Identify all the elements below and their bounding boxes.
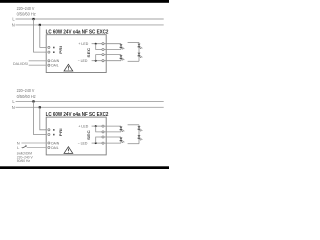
wire continuation bottom — [128, 60, 139, 62]
wire +LED out 1b — [104, 125, 121, 127]
junction +LED — [95, 43, 97, 45]
wire -LED out 2b — [104, 142, 121, 144]
svg-text:DALI/DSI: DALI/DSI — [13, 61, 28, 66]
svg-text:N: N — [12, 22, 15, 27]
letterbox bar bottom — [0, 166, 169, 169]
wire switchDIM N — [21, 142, 46, 144]
wire L — [16, 18, 164, 20]
wire N drop — [40, 25, 46, 48]
junction N — [39, 24, 41, 26]
letterbox bar top — [0, 0, 169, 3]
mains voltage label 2 — [17, 88, 36, 99]
terminal -LED 2b — [102, 142, 104, 144]
LED module LED5 — [120, 126, 125, 132]
wire L 2 — [16, 100, 164, 102]
warning symbol — [64, 64, 73, 71]
push-button S1 — [22, 145, 26, 148]
terminal L 2 (pri row 2) — [48, 133, 50, 135]
junction +LED 2 — [95, 125, 97, 127]
svg-text:− LED: − LED — [78, 142, 88, 146]
mains voltage label — [17, 6, 36, 17]
terminal +LED 1 — [102, 43, 104, 45]
terminal L (pri row 2) — [48, 51, 50, 53]
svg-text:LC 60W 24V o4a NF SC EXC2: LC 60W 24V o4a NF SC EXC2 — [46, 112, 109, 118]
svg-text:DA/L: DA/L — [51, 64, 58, 68]
svg-text:DA/N: DA/N — [51, 59, 59, 63]
wire N 2 — [16, 106, 164, 108]
svg-text:SEC: SEC — [86, 130, 91, 140]
wire +LED out 2 — [104, 49, 121, 51]
wire L drop 2 — [34, 101, 47, 134]
terminal +LED 2b — [102, 131, 104, 133]
wire -LED 2 — [92, 142, 103, 144]
svg-text:220–240 V: 220–240 V — [17, 6, 35, 11]
junction -LED — [95, 60, 97, 62]
wire LED string — [138, 42, 140, 61]
junction L — [32, 18, 34, 20]
wire continuation top 2 — [128, 124, 139, 126]
wire continuation bottom 2 — [128, 143, 139, 145]
wire switchDIM L left — [21, 147, 22, 149]
svg-text:− LED: − LED — [78, 59, 88, 63]
driver U1 box — [46, 35, 106, 73]
svg-text:220–240 V: 220–240 V — [17, 88, 35, 93]
wire -LED out 2 — [104, 60, 121, 62]
svg-text:PRI: PRI — [58, 46, 63, 54]
wire -LED out 1 — [104, 54, 121, 56]
svg-text:SEC: SEC — [86, 48, 91, 58]
driver U2 box — [46, 117, 106, 155]
wire +LED out 1 — [104, 43, 121, 45]
LED module LED1 — [120, 44, 125, 50]
wire L drop — [34, 19, 47, 52]
junction L 2 — [32, 100, 34, 102]
terminal +LED 2 — [102, 48, 104, 50]
terminal N (pri row 1) — [48, 46, 50, 48]
wire -LED out 1b — [104, 136, 121, 138]
terminal DA/L — [48, 64, 50, 66]
terminal DA/L 2 — [48, 146, 50, 148]
wire +LED 2 — [92, 125, 103, 127]
junction N 2 — [39, 106, 41, 108]
svg-text:0/50/60 Hz: 0/50/60 Hz — [17, 12, 36, 17]
wire +LED branch — [96, 44, 103, 50]
wire +LED branch 2 — [96, 126, 103, 132]
switchDIM source label — [17, 152, 34, 164]
warning symbol 2 — [64, 147, 73, 154]
wire DA/N bus — [29, 60, 47, 62]
svg-text:DA/L: DA/L — [51, 146, 58, 150]
terminal DA/N — [48, 60, 50, 62]
svg-text:LC 60W 24V o4a NF SC EXC2: LC 60W 24V o4a NF SC EXC2 — [46, 29, 109, 35]
svg-text:N: N — [12, 105, 15, 110]
LED module LED7 — [138, 126, 143, 131]
LED module LED6 — [120, 137, 125, 143]
wire N drop 2 — [40, 107, 46, 130]
wire +LED — [92, 43, 103, 45]
svg-text:PRI: PRI — [58, 128, 63, 136]
svg-text:+ LED: + LED — [78, 42, 88, 46]
LED module LED4 — [138, 53, 143, 58]
terminal DA/N 2 — [48, 142, 50, 144]
terminal -LED 1b — [102, 136, 104, 138]
svg-text:50/60 Hz: 50/60 Hz — [17, 159, 31, 163]
svg-text:0/50/60 Hz: 0/50/60 Hz — [17, 94, 36, 99]
wire DA/L bus — [29, 64, 47, 66]
LED module LED2 — [120, 55, 125, 61]
wire LED string 2 — [138, 125, 140, 144]
wire -LED branch — [96, 55, 103, 61]
LED module LED3 — [138, 44, 143, 49]
terminal -LED 2 — [102, 60, 104, 62]
wire -LED branch 2 — [96, 137, 103, 143]
wire continuation top — [128, 41, 139, 43]
terminal -LED 1 — [102, 54, 104, 56]
wire switchDIM L right — [27, 147, 46, 149]
terminal +LED 1b — [102, 125, 104, 127]
wire -LED — [92, 60, 103, 62]
svg-text:+ LED: + LED — [78, 125, 88, 129]
wire N — [16, 24, 164, 26]
junction -LED 2 — [95, 142, 97, 144]
svg-text:DA/N: DA/N — [51, 141, 59, 145]
terminal N 2 (pri row 1) — [48, 129, 50, 131]
LED module LED8 — [138, 135, 143, 140]
wire +LED out 2b — [104, 131, 121, 133]
